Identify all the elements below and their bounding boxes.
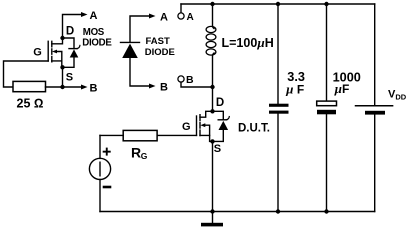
svg-text:G: G	[141, 151, 148, 161]
svg-text:µF: µF	[334, 81, 350, 96]
svg-text:G: G	[33, 46, 42, 58]
svg-text:D: D	[216, 97, 224, 109]
svg-text:A: A	[160, 11, 168, 23]
svg-text:FAST: FAST	[146, 36, 170, 47]
svg-text:L=100µH: L=100µH	[222, 35, 274, 50]
svg-text:B: B	[90, 82, 98, 94]
svg-text:B: B	[186, 74, 194, 86]
svg-text:µ F: µ F	[285, 81, 304, 96]
svg-text:DIODE: DIODE	[82, 38, 112, 49]
svg-text:B: B	[160, 81, 168, 93]
svg-text:S: S	[214, 143, 221, 155]
svg-text:25 Ω: 25 Ω	[17, 96, 44, 110]
svg-text:G: G	[182, 121, 191, 133]
svg-text:D.U.T.: D.U.T.	[238, 123, 270, 135]
svg-text:D: D	[66, 25, 74, 37]
svg-text:DIODE: DIODE	[145, 47, 175, 58]
svg-text:A: A	[90, 10, 98, 22]
svg-text:A: A	[187, 12, 194, 23]
svg-text:S: S	[66, 72, 73, 84]
svg-text:R: R	[131, 145, 141, 161]
